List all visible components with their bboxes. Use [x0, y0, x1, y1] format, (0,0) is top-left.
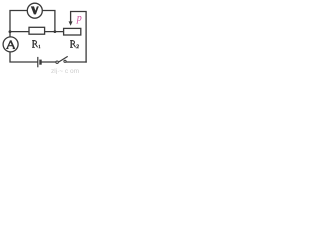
- wire battery to switch: [42, 61, 56, 63]
- voltmeter V: [27, 3, 42, 18]
- switch lever: [58, 56, 67, 62]
- slider arrow head on R2: [69, 21, 73, 25]
- node B junction dot right of R1: [54, 30, 57, 33]
- wire switch to bottom-right corner: [66, 61, 86, 63]
- svg-text:p: p: [76, 13, 82, 24]
- battery long plate: [37, 57, 39, 67]
- resistor R1: [29, 27, 45, 34]
- wire R1 to R2: [45, 31, 64, 33]
- node A junction dot left: [9, 30, 12, 33]
- battery short thick plate: [39, 60, 41, 65]
- wire top-left horizontal: [10, 11, 27, 38]
- label R1: [32, 40, 40, 48]
- wire middle left to R1: [9, 31, 29, 33]
- ammeter A: [3, 37, 18, 52]
- wire top-right of voltmeter with corner down to node B: [42, 11, 55, 32]
- switch left terminal: [56, 61, 58, 63]
- switch right terminal: [64, 60, 66, 62]
- label R2: [70, 40, 79, 48]
- wire left vertical lower: [10, 52, 37, 62]
- svg-text:zlj·~ c om: zlj·~ c om: [51, 68, 79, 74]
- wire slider stem and top-right horizontal and right vertical: [71, 12, 87, 63]
- rheostat R2: [64, 28, 81, 35]
